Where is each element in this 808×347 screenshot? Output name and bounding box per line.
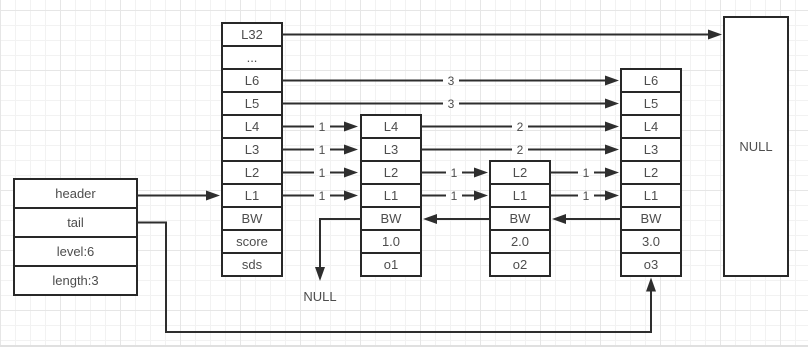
svg-text:1: 1 <box>319 166 326 180</box>
svg-text:L5: L5 <box>245 96 259 111</box>
svg-text:L6: L6 <box>245 73 259 88</box>
svg-text:BW: BW <box>381 211 403 226</box>
svg-text:2.0: 2.0 <box>511 234 529 249</box>
svg-text:header: header <box>55 186 96 201</box>
svg-text:L2: L2 <box>513 165 527 180</box>
svg-text:...: ... <box>247 50 258 65</box>
svg-text:1.0: 1.0 <box>382 234 400 249</box>
svg-text:score: score <box>236 234 268 249</box>
svg-text:o3: o3 <box>644 257 658 272</box>
svg-text:1: 1 <box>583 166 590 180</box>
svg-text:1: 1 <box>319 120 326 134</box>
svg-text:L1: L1 <box>245 188 259 203</box>
svg-text:2: 2 <box>517 143 524 157</box>
svg-text:3: 3 <box>448 97 455 111</box>
svg-text:1: 1 <box>451 166 458 180</box>
svg-text:L4: L4 <box>245 119 259 134</box>
svg-text:sds: sds <box>242 257 263 272</box>
svg-text:L3: L3 <box>384 142 398 157</box>
svg-text:L4: L4 <box>644 119 658 134</box>
svg-text:L32: L32 <box>241 27 263 42</box>
svg-text:1: 1 <box>319 143 326 157</box>
svg-text:NULL: NULL <box>739 139 772 154</box>
svg-text:L5: L5 <box>644 96 658 111</box>
svg-text:BW: BW <box>641 211 663 226</box>
svg-text:BW: BW <box>510 211 532 226</box>
svg-text:L6: L6 <box>644 73 658 88</box>
svg-text:tail: tail <box>67 215 84 230</box>
svg-text:L4: L4 <box>384 119 398 134</box>
svg-text:L1: L1 <box>384 188 398 203</box>
svg-text:2: 2 <box>517 120 524 134</box>
svg-text:1: 1 <box>583 189 590 203</box>
svg-text:3.0: 3.0 <box>642 234 660 249</box>
svg-text:level:6: level:6 <box>57 244 95 259</box>
svg-text:L2: L2 <box>644 165 658 180</box>
svg-text:3: 3 <box>448 74 455 88</box>
svg-text:length:3: length:3 <box>52 273 98 288</box>
svg-text:1: 1 <box>451 189 458 203</box>
svg-text:o2: o2 <box>513 257 527 272</box>
svg-text:L3: L3 <box>245 142 259 157</box>
svg-text:BW: BW <box>242 211 264 226</box>
svg-text:1: 1 <box>319 189 326 203</box>
svg-text:L1: L1 <box>513 188 527 203</box>
svg-text:L2: L2 <box>245 165 259 180</box>
svg-text:o1: o1 <box>384 257 398 272</box>
svg-text:NULL: NULL <box>303 289 336 304</box>
svg-text:L1: L1 <box>644 188 658 203</box>
svg-text:L3: L3 <box>644 142 658 157</box>
svg-text:L2: L2 <box>384 165 398 180</box>
